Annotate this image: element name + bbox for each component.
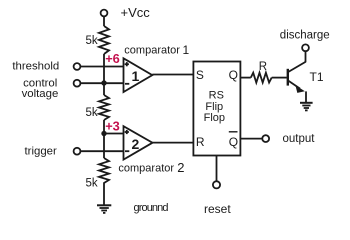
svg-text:+6: +6 bbox=[105, 51, 120, 66]
svg-text:comparator: comparator bbox=[118, 163, 174, 175]
svg-text:Q: Q bbox=[229, 68, 238, 82]
wire flip flop to reset bbox=[216, 156, 218, 182]
svg-text:Flip: Flip bbox=[205, 101, 223, 113]
terminal control voltage bbox=[74, 80, 81, 87]
svg-text:reset: reset bbox=[204, 202, 231, 216]
svg-text:R: R bbox=[196, 135, 205, 149]
base bar bbox=[287, 69, 289, 86]
op-amp comparator 2 bbox=[124, 126, 153, 159]
svg-text:threshold: threshold bbox=[12, 60, 59, 72]
terminal trigger bbox=[74, 148, 81, 155]
svg-text:discharge: discharge bbox=[280, 30, 330, 42]
collector diagonal bbox=[288, 62, 306, 72]
svg-text:RS: RS bbox=[209, 89, 224, 101]
wire Vcc to R1 bbox=[103, 17, 105, 26]
pin + (comparator 2) bbox=[125, 130, 129, 134]
svg-text:grounnd: grounnd bbox=[134, 202, 169, 214]
svg-text:Q: Q bbox=[229, 135, 238, 149]
terminal reset bbox=[213, 181, 220, 188]
pin - (comparator 1) bbox=[125, 83, 129, 85]
ground (emitter) bbox=[300, 103, 313, 111]
svg-text:1: 1 bbox=[132, 68, 140, 84]
svg-text:+Vcc: +Vcc bbox=[121, 5, 151, 20]
ground (divider) bbox=[97, 205, 111, 213]
wire R3 to ground bbox=[103, 186, 105, 205]
svg-text:trigger: trigger bbox=[25, 146, 57, 158]
emitter wire down bbox=[305, 91, 307, 102]
svg-text:R: R bbox=[259, 61, 267, 73]
svg-text:+3: +3 bbox=[105, 119, 120, 134]
svg-text:comparator: comparator bbox=[124, 45, 180, 57]
pin + (comparator 1) bbox=[125, 62, 129, 66]
svg-text:output: output bbox=[283, 133, 316, 145]
svg-text:2: 2 bbox=[132, 136, 140, 152]
wire resistor R to base bbox=[272, 77, 287, 79]
wire R1 to R2 (divider rail) bbox=[103, 54, 105, 95]
wire Q to resistor R bbox=[240, 77, 250, 79]
wire comparator 2 output to R bbox=[153, 142, 194, 144]
terminal threshold bbox=[74, 63, 81, 70]
transistor T1 bbox=[288, 51, 306, 102]
wire control voltage to comparator 1 - bbox=[81, 82, 124, 84]
svg-text:S: S bbox=[196, 68, 204, 82]
wire threshold to comparator 1 + bbox=[81, 66, 124, 68]
wire node to comparator 2 + bbox=[104, 133, 124, 135]
pin - (comparator 2) bbox=[125, 150, 129, 152]
terminal +Vcc bbox=[101, 10, 108, 17]
svg-text:Flop: Flop bbox=[204, 112, 225, 124]
emitter arrow bbox=[295, 85, 305, 93]
RS flip flop U1 bbox=[193, 62, 240, 156]
svg-text:5k: 5k bbox=[86, 35, 98, 47]
resistor R3 5k bbox=[99, 158, 109, 186]
svg-text:1: 1 bbox=[183, 43, 190, 57]
wire comparator 1 output to S bbox=[152, 74, 193, 76]
wire trigger to comparator 2 - bbox=[81, 150, 124, 152]
op-amp comparator 1 bbox=[124, 58, 153, 92]
wire Qbar to output bbox=[240, 138, 262, 140]
svg-text:5k: 5k bbox=[86, 107, 98, 119]
terminal discharge bbox=[302, 44, 309, 51]
svg-text:5k: 5k bbox=[86, 177, 98, 189]
terminal output bbox=[262, 135, 269, 142]
resistor R2 5k bbox=[99, 95, 109, 120]
resistor R bbox=[251, 73, 272, 83]
resistor R1 5k bbox=[99, 26, 109, 54]
junction divider node to comparator 2 + bbox=[101, 131, 106, 136]
junction control/divider node bbox=[101, 80, 106, 85]
svg-text:voltage: voltage bbox=[22, 88, 59, 100]
svg-text:2: 2 bbox=[177, 160, 184, 175]
emitter diagonal bbox=[288, 81, 300, 89]
collector wire to discharge bbox=[305, 51, 307, 62]
wire R2 to R3 (divider rail) bbox=[103, 120, 105, 158]
svg-text:T1: T1 bbox=[310, 70, 324, 84]
